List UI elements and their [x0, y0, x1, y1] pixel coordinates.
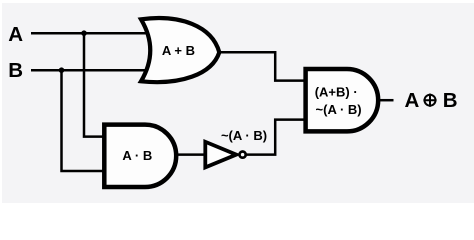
svg-text:~(A · B): ~(A · B) — [316, 102, 362, 117]
svg-text:~(A · B): ~(A · B) — [221, 128, 267, 143]
wire B input — [31, 69, 152, 72]
OR gate U1 — [141, 18, 219, 82]
svg-text:A + B: A + B — [162, 43, 195, 58]
node junction on wire A — [81, 30, 87, 36]
xor symbol circle-plus — [423, 94, 436, 107]
wire AND U2 output to inverter — [176, 153, 204, 156]
AND gate U3 — [306, 69, 379, 131]
wire OR U1 output to AND U3 input 1 — [219, 52, 306, 80]
inverter U4 bubble — [240, 152, 246, 158]
wire A input — [31, 32, 150, 35]
wire A branch to AND U2 top input — [84, 33, 106, 136]
AND gate U2 — [104, 125, 176, 187]
node junction on wire B — [59, 67, 65, 73]
svg-text:(A+B) ·: (A+B) · — [315, 84, 358, 99]
svg-text:A: A — [405, 89, 420, 112]
wire inverter output to AND U3 input 2 — [246, 120, 306, 155]
svg-text:B: B — [443, 89, 458, 112]
wire B branch to AND U2 bottom input — [62, 70, 107, 171]
svg-text:A · B: A · B — [122, 148, 152, 163]
svg-text:B: B — [8, 59, 23, 82]
inverter U4 triangle — [205, 142, 236, 168]
svg-text:A: A — [8, 23, 23, 46]
wire AND U3 output — [378, 99, 394, 102]
